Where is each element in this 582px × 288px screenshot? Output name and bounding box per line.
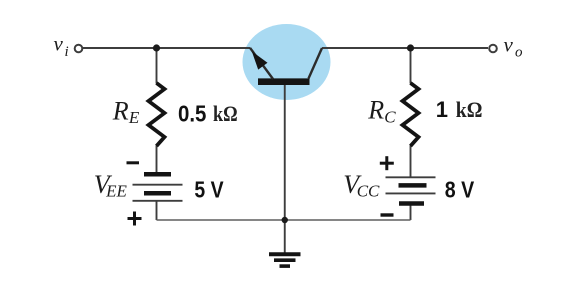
svg-text:C: C — [384, 108, 396, 127]
svg-text:5 V: 5 V — [194, 177, 224, 203]
svg-text:0.5: 0.5 — [178, 100, 206, 126]
svg-text:i: i — [65, 44, 69, 60]
svg-text:kΩ: kΩ — [213, 101, 238, 126]
svg-text:o: o — [515, 45, 523, 61]
svg-text:8 V: 8 V — [445, 177, 475, 203]
svg-text:kΩ: kΩ — [456, 97, 483, 122]
svg-text:EE: EE — [105, 181, 127, 200]
svg-text:1: 1 — [436, 97, 448, 122]
svg-text:R: R — [112, 97, 129, 126]
svg-text:v: v — [504, 33, 514, 57]
svg-text:E: E — [128, 108, 140, 127]
svg-text:CC: CC — [357, 181, 380, 200]
svg-text:R: R — [367, 96, 384, 125]
svg-text:v: v — [54, 32, 64, 56]
